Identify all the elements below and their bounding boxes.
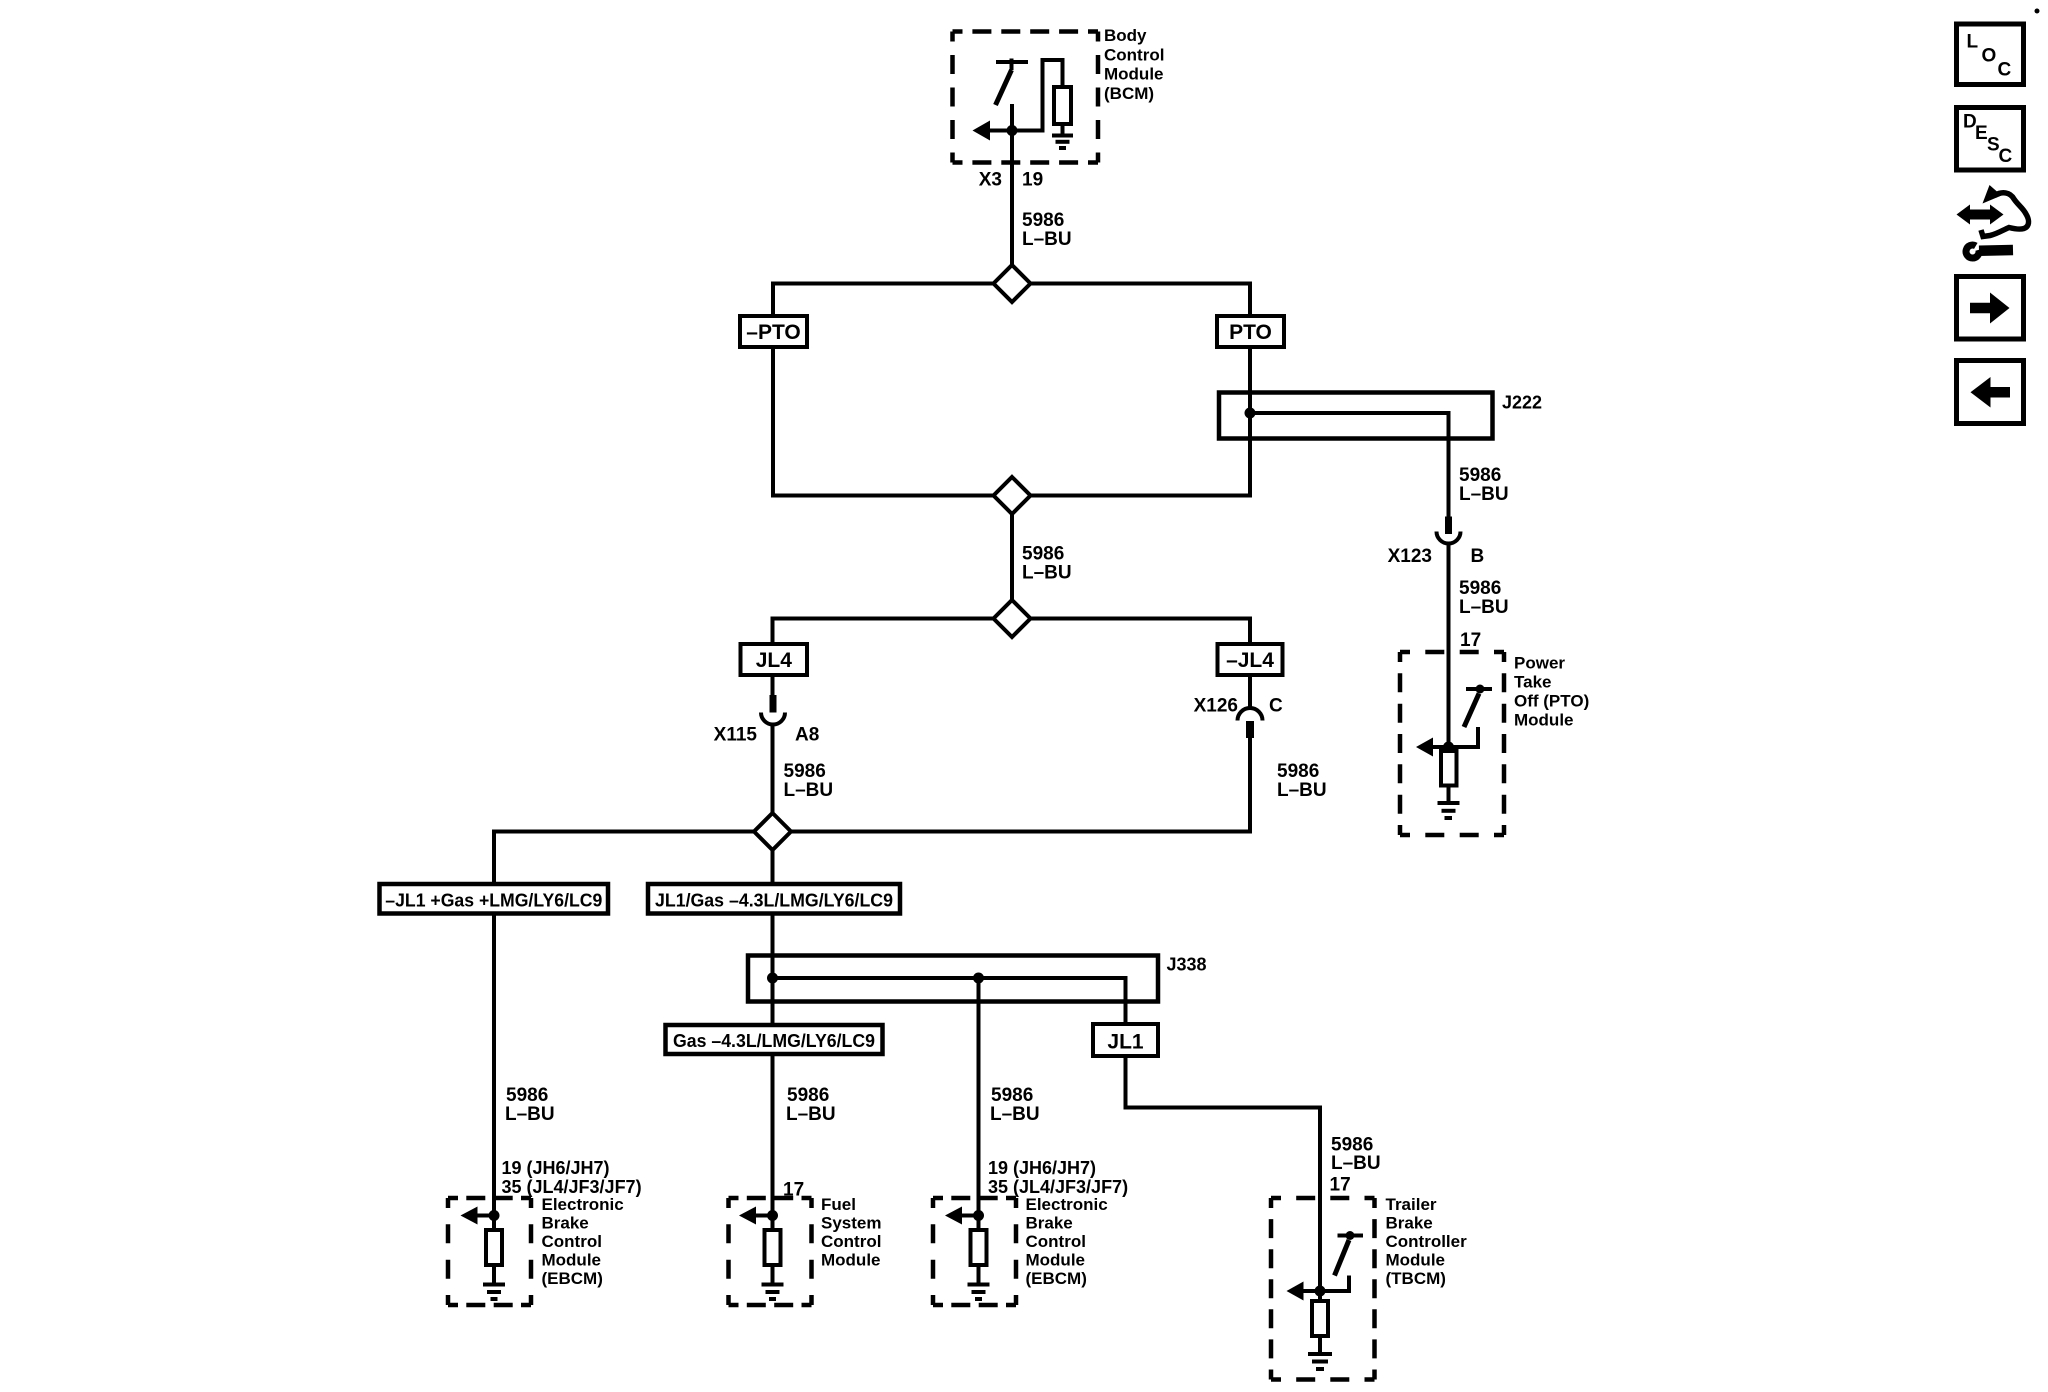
BCM signal arrow (to left)	[973, 121, 1013, 141]
Fuel module name label	[821, 1195, 881, 1270]
svg-text:L–BU: L–BU	[784, 780, 834, 801]
module PTO dashed box	[1400, 652, 1504, 835]
wire label 5986 L-BU (between S2 and S3)	[1022, 544, 1072, 584]
connector X126 socket arc	[1238, 708, 1263, 721]
Fuel module junction dot	[767, 1210, 778, 1221]
svg-text:35 (JL4/JF3/JF7): 35 (JL4/JF3/JF7)	[988, 1177, 1128, 1197]
svg-text:5986: 5986	[1459, 465, 1501, 486]
ground (BCM internal)	[1052, 124, 1073, 148]
label box PTO	[1217, 316, 1284, 347]
icon DESC button	[1957, 108, 2024, 171]
pin labels 19/35 at left EBCM	[502, 1158, 642, 1197]
wire 5986 L-BU from J338 junction down to EBCM (right)	[977, 978, 981, 1216]
junction dot inside J222	[1245, 408, 1256, 419]
ground (PTO module)	[1438, 786, 1460, 819]
svg-text:Power: Power	[1514, 654, 1565, 673]
svg-text:Control: Control	[1026, 1232, 1086, 1251]
svg-text:5986: 5986	[784, 761, 826, 782]
svg-text:PTO: PTO	[1229, 321, 1272, 344]
resistor (TBCM)	[1312, 1291, 1328, 1336]
EBCM (right) signal arrow	[945, 1207, 979, 1225]
wire label 5986 L-BU (center branch to Fuel module)	[786, 1085, 836, 1125]
pin labels 19/35 at right EBCM	[988, 1158, 1128, 1197]
BCM switch	[996, 59, 1029, 106]
TBCM signal arrow	[1287, 1282, 1321, 1301]
label box -JL4	[1218, 644, 1283, 675]
label box JL4	[741, 644, 808, 675]
connector X115 socket arc	[761, 713, 785, 725]
svg-text:19: 19	[1022, 170, 1043, 191]
module BCM dashed box	[953, 32, 1099, 163]
wire 5986 L-BU splice S4 down through J338 to Fuel System Control Module	[771, 832, 775, 1216]
svg-text:5986: 5986	[991, 1085, 1033, 1106]
connector X126 labels	[1194, 696, 1283, 717]
svg-text:5986: 5986	[787, 1085, 829, 1106]
svg-text:5986: 5986	[1022, 544, 1064, 565]
ground (left EBCM)	[483, 1265, 505, 1299]
svg-text:Brake: Brake	[542, 1214, 589, 1233]
svg-text:19 (JH6/JH7): 19 (JH6/JH7)	[502, 1158, 610, 1178]
wire label 5986 L-BU (branch to TBCM)	[1331, 1135, 1381, 1175]
svg-text:–JL4: –JL4	[1226, 649, 1274, 672]
connector X115 pin (male)	[770, 695, 777, 713]
svg-text:5986: 5986	[1277, 761, 1319, 782]
svg-text:(BCM): (BCM)	[1104, 84, 1154, 103]
svg-text:Fuel: Fuel	[821, 1195, 856, 1214]
ground (TBCM)	[1308, 1336, 1332, 1369]
svg-text:L–BU: L–BU	[1459, 484, 1509, 505]
ground (right EBCM)	[968, 1265, 990, 1299]
label box JL1/Gas -4.3L/LMG/LY6/LC9	[648, 884, 900, 914]
wire label 5986 L-BU (below BCM)	[1022, 210, 1072, 250]
PTO module junction dot	[1443, 742, 1454, 753]
wire 5986 L-BU splice S4 left branch down to EBCM (left)	[494, 832, 773, 1216]
svg-text:5986: 5986	[1022, 210, 1064, 231]
svg-text:X123: X123	[1388, 546, 1432, 567]
wire 5986 L-BU splice S2 to splice S3	[1010, 496, 1014, 619]
svg-text:Brake: Brake	[1026, 1214, 1073, 1233]
svg-text:Controller: Controller	[1386, 1232, 1468, 1251]
svg-text:L–BU: L–BU	[1022, 229, 1072, 250]
wire label 5986 L-BU (X115 to S4)	[784, 761, 834, 801]
svg-text:Module: Module	[1104, 65, 1164, 84]
wire right branch through PTO box and J222 down and left to splice S2	[1012, 282, 1250, 496]
svg-text:5986: 5986	[506, 1085, 548, 1106]
BCM name label	[1104, 26, 1164, 103]
svg-text:JL4: JL4	[756, 649, 793, 672]
svg-text:L–BU: L–BU	[1331, 1153, 1381, 1174]
icon fix/jump symbol (double arrow, outline arrow, wrench)	[1957, 185, 2029, 258]
svg-text:(TBCM): (TBCM)	[1386, 1269, 1446, 1288]
wire 5986 L-BU from BCM pin 19 down to splice S1	[1010, 104, 1014, 284]
resistor (BCM internal)	[1054, 87, 1071, 124]
PTO module name label	[1514, 654, 1589, 730]
label box JL1	[1093, 1024, 1158, 1056]
BCM junction dot	[1007, 125, 1018, 136]
splice diamond S3	[994, 600, 1031, 637]
stray ink dot top right	[2035, 9, 2040, 14]
module EBCM (right) dashed box	[933, 1198, 1016, 1305]
svg-text:Module: Module	[1026, 1251, 1086, 1270]
svg-text:Electronic: Electronic	[542, 1195, 624, 1214]
EBCM (left) signal arrow	[461, 1207, 495, 1225]
module EBCM (left) dashed box	[448, 1198, 531, 1305]
connector X123 socket arc	[1437, 532, 1461, 544]
svg-text:–JL1 +Gas +LMG/LY6/LC9: –JL1 +Gas +LMG/LY6/LC9	[385, 891, 602, 911]
svg-text:C: C	[1269, 696, 1283, 717]
svg-text:Module: Module	[1386, 1251, 1446, 1270]
label box -PTO	[740, 316, 807, 347]
svg-text:17: 17	[1460, 630, 1481, 651]
svg-text:L–BU: L–BU	[1022, 563, 1072, 584]
ground (Fuel module)	[762, 1265, 784, 1299]
svg-text:35 (JL4/JF3/JF7): 35 (JL4/JF3/JF7)	[502, 1177, 642, 1197]
BCM internal wire to pull-up resistor	[1012, 60, 1063, 131]
svg-text:–PTO: –PTO	[746, 321, 800, 344]
pin labels X3 / 19 at BCM	[979, 170, 1043, 191]
wire label 5986 L-BU (branch to right EBCM)	[990, 1085, 1040, 1125]
svg-text:5986: 5986	[1459, 578, 1501, 599]
connector X126 pin (male)	[1246, 721, 1254, 738]
svg-text:L: L	[1967, 32, 1979, 53]
svg-text:Control: Control	[1104, 45, 1164, 64]
svg-text:Electronic: Electronic	[1026, 1195, 1108, 1214]
wire label 5986 L-BU (X126 branch)	[1277, 761, 1327, 801]
resistor (left EBCM)	[486, 1216, 502, 1266]
wire left branch through -PTO box down and right to splice S2	[773, 282, 1012, 496]
icon back (left arrow) button	[1957, 361, 2024, 424]
svg-text:C: C	[1999, 146, 2013, 167]
svg-text:Take: Take	[1514, 673, 1552, 692]
svg-text:C: C	[1998, 60, 2012, 81]
icon LOC button	[1957, 24, 2024, 85]
PTO module switch	[1449, 685, 1493, 748]
TBCM switch	[1320, 1231, 1363, 1291]
svg-text:L–BU: L–BU	[786, 1104, 836, 1125]
wire 5986 L-BU from connector X126 down and left to splice S4	[773, 737, 1251, 832]
junction block J222	[1219, 393, 1542, 439]
svg-text:JL1/Gas –4.3L/LMG/LY6/LC9: JL1/Gas –4.3L/LMG/LY6/LC9	[655, 891, 893, 911]
svg-text:17: 17	[1330, 1175, 1351, 1196]
svg-text:19 (JH6/JH7): 19 (JH6/JH7)	[988, 1158, 1096, 1178]
wire jumper inside J222 from junction to connector X123 pin	[1250, 413, 1449, 517]
junction dot inside J338 at left wire	[767, 973, 778, 984]
wire label 5986 L-BU (X123 to PTO module)	[1459, 578, 1509, 618]
svg-text:JL1: JL1	[1107, 1031, 1144, 1054]
EBCM (left) name label	[542, 1195, 624, 1288]
wire label 5986 L-BU (J222 to X123)	[1459, 465, 1509, 505]
icon next (right arrow) button	[1957, 277, 2024, 340]
wire horizontal through splice S3 (JL4 / -JL4 branch)	[773, 617, 1250, 621]
wire 5986 L-BU from connector X123 down into PTO module	[1447, 544, 1451, 748]
svg-text:B: B	[1471, 546, 1485, 567]
svg-text:Control: Control	[821, 1232, 881, 1251]
label box Gas -4.3L/LMG/LY6/LC9	[666, 1025, 883, 1054]
svg-text:X115: X115	[714, 725, 758, 746]
EBCM (left) junction dot	[489, 1210, 500, 1221]
svg-text:L–BU: L–BU	[1459, 597, 1509, 618]
svg-text:(EBCM): (EBCM)	[542, 1269, 603, 1288]
svg-text:Off (PTO): Off (PTO)	[1514, 692, 1589, 711]
splice diamond S1	[994, 265, 1031, 302]
svg-text:X3: X3	[979, 170, 1002, 191]
svg-text:Trailer: Trailer	[1386, 1195, 1437, 1214]
wire jumper inside J338 going right then down through JL1 box to TBCM	[773, 978, 1321, 1291]
svg-text:Module: Module	[542, 1251, 602, 1270]
svg-text:E: E	[1975, 123, 1988, 144]
svg-text:Module: Module	[1514, 711, 1574, 730]
connector X123 pin (male)	[1445, 517, 1452, 535]
svg-text:L–BU: L–BU	[1277, 780, 1327, 801]
svg-text:O: O	[1982, 46, 1997, 67]
splice diamond S4	[754, 813, 791, 850]
wire horizontal through splice S1 (-PTO / PTO branch)	[773, 282, 1250, 286]
connector X115 labels	[714, 725, 820, 746]
wire -JL4 branch down to connector X126	[1248, 617, 1252, 710]
svg-text:Body: Body	[1104, 26, 1147, 45]
wire JL4 branch down to connector X115 pin	[771, 617, 775, 697]
resistor (Fuel module)	[765, 1216, 781, 1266]
svg-text:A8: A8	[795, 725, 819, 746]
svg-text:J338: J338	[1167, 955, 1207, 975]
wire 5986 L-BU from connector X115 to splice S4	[771, 724, 775, 832]
svg-text:L–BU: L–BU	[505, 1104, 555, 1125]
TBCM junction dot	[1315, 1286, 1326, 1297]
module Fuel System Control dashed box	[729, 1198, 812, 1305]
connector X123 labels	[1388, 546, 1485, 567]
svg-text:L–BU: L–BU	[990, 1104, 1040, 1125]
module TBCM dashed box	[1271, 1198, 1375, 1380]
svg-text:Brake: Brake	[1386, 1214, 1433, 1233]
svg-text:X126: X126	[1194, 696, 1238, 717]
Fuel module signal arrow	[739, 1207, 773, 1225]
junction dot inside J338 at middle branch	[973, 973, 984, 984]
svg-text:J222: J222	[1502, 393, 1542, 413]
resistor (right EBCM)	[971, 1216, 987, 1266]
svg-text:Module: Module	[821, 1251, 881, 1270]
svg-text:System: System	[821, 1214, 881, 1233]
EBCM (right) junction dot	[973, 1210, 984, 1221]
label box -JL1 +Gas +LMG/LY6/LC9	[380, 884, 609, 914]
resistor (PTO module)	[1441, 751, 1457, 786]
splice diamond S2	[994, 477, 1031, 514]
wire label 5986 L-BU (left branch to EBCM)	[505, 1085, 555, 1125]
svg-text:Gas –4.3L/LMG/LY6/LC9: Gas –4.3L/LMG/LY6/LC9	[673, 1031, 875, 1051]
svg-text:(EBCM): (EBCM)	[1026, 1269, 1087, 1288]
svg-text:Control: Control	[542, 1232, 602, 1251]
EBCM (right) name label	[1026, 1195, 1108, 1288]
TBCM name label	[1386, 1195, 1468, 1288]
PTO module signal arrow	[1416, 738, 1449, 757]
junction block J338	[748, 955, 1207, 1002]
